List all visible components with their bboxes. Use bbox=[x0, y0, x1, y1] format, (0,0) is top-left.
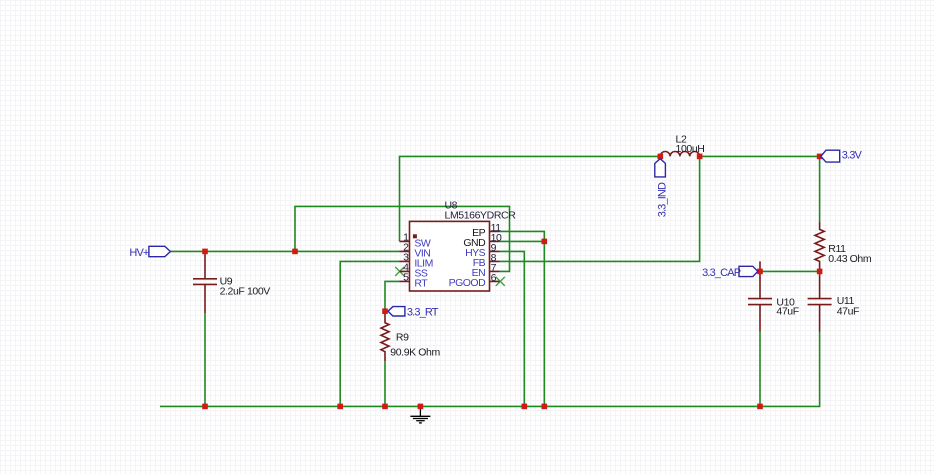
svg-text:3.3V: 3.3V bbox=[842, 150, 863, 162]
svg-text:5: 5 bbox=[403, 271, 409, 283]
svg-text:47uF: 47uF bbox=[776, 305, 798, 317]
svg-text:R9: R9 bbox=[396, 331, 409, 343]
svg-text:100uH: 100uH bbox=[676, 143, 705, 155]
svg-text:3.3_IND: 3.3_IND bbox=[657, 182, 669, 217]
svg-text:3.3_RT: 3.3_RT bbox=[407, 307, 439, 319]
svg-text:LM5166YDRCR: LM5166YDRCR bbox=[445, 209, 517, 221]
svg-text:RT: RT bbox=[414, 277, 428, 289]
svg-text:47uF: 47uF bbox=[837, 305, 859, 317]
svg-text:6: 6 bbox=[491, 272, 497, 284]
svg-text:3.3_CAP: 3.3_CAP bbox=[702, 267, 741, 279]
svg-text:90.9K Ohm: 90.9K Ohm bbox=[390, 347, 440, 359]
svg-text:PGOOD: PGOOD bbox=[449, 277, 487, 289]
svg-text:2.2uF 100V: 2.2uF 100V bbox=[220, 285, 271, 297]
svg-text:HV+: HV+ bbox=[129, 247, 149, 259]
svg-text:0.43 Ohm: 0.43 Ohm bbox=[828, 253, 872, 265]
